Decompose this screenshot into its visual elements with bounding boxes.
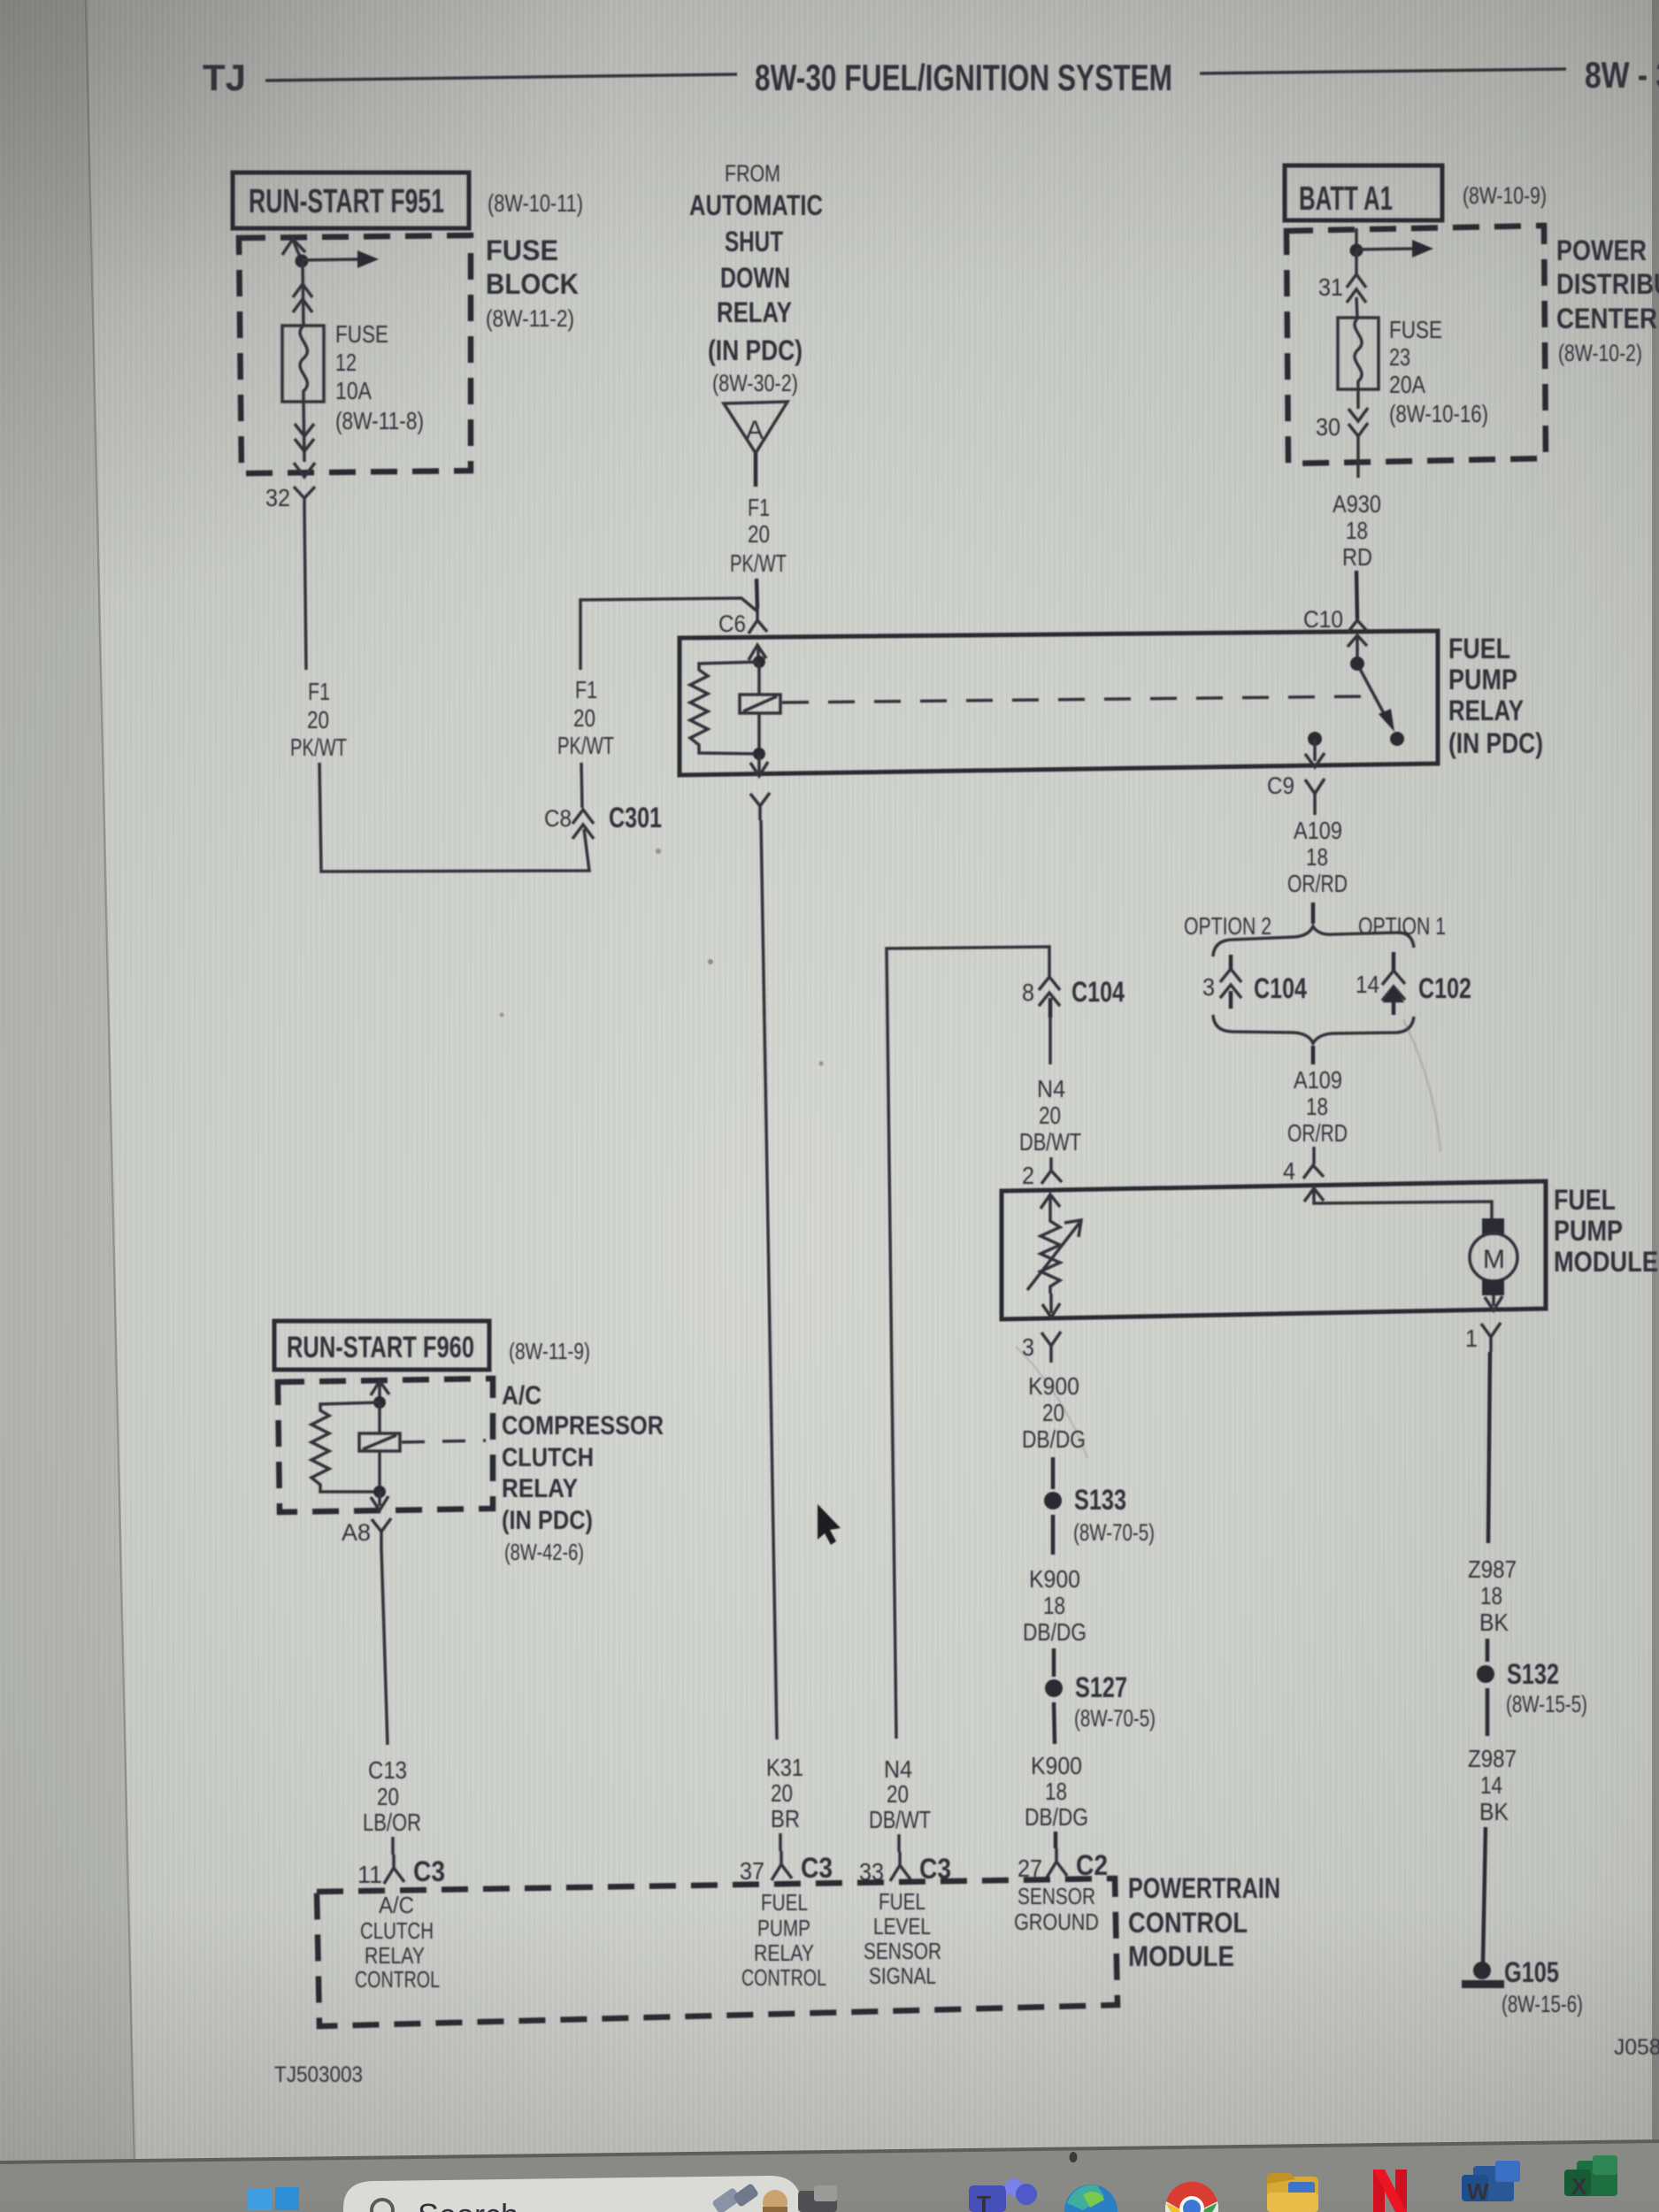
splice S127 [1045,1671,1156,1732]
mouse cursor [818,1504,841,1545]
relay switch arm [1360,669,1394,732]
svg-text:MODULE: MODULE [1554,1246,1658,1278]
label FUEL PUMP RELAY (IN PDC) [1448,633,1543,759]
node RUN-START F951 title box [233,173,469,228]
wire stub above option brace [1311,902,1316,924]
wire label N4 20 DB/WT (upper) [1019,1075,1081,1156]
windows logo [248,2187,299,2210]
label A/C COMPRESSOR CLUTCH RELAY (IN PDC) (8W-42-6) [502,1381,664,1565]
wire down to C6 [757,579,757,609]
svg-text:A109: A109 [1294,817,1342,844]
svg-text:14: 14 [1356,971,1379,998]
wire from relay C8 down to PCM [750,793,770,820]
connector A8 [342,1518,391,1547]
svg-text:OPTION 1: OPTION 1 [1358,912,1446,940]
svg-text:POWER: POWER [1556,234,1647,266]
value label FUSE 23 20A (8W-10-16) [1389,316,1488,427]
svg-text:18: 18 [1043,1592,1065,1619]
pin label A/C CLUTCH RELAY CONTROL [355,1892,440,1993]
svg-text:DB/WT: DB/WT [1019,1128,1081,1156]
svg-text:FUEL: FUEL [1448,633,1510,664]
label FROM AUTOMATIC SHUT DOWN RELAY (IN PDC) (8W-30-2) [689,160,823,396]
svg-text:RELAY: RELAY [365,1942,425,1969]
svg-text:W: W [1467,2178,1489,2205]
svg-text:CONTROL: CONTROL [1128,1907,1248,1939]
relay U1 box [680,631,1438,775]
svg-text:C104: C104 [1071,976,1125,1008]
feed stub from BATT A1 into PDC [1355,228,1358,250]
svg-text:COMPRESSOR: COMPRESSOR [502,1411,664,1440]
svg-text:4: 4 [1283,1157,1295,1185]
header rule right [1200,69,1566,73]
svg-text:A930: A930 [1333,490,1381,518]
svg-text:32: 32 [265,484,290,511]
svg-text:A109: A109 [1294,1066,1342,1094]
fuse F12 10A symbol [282,326,324,402]
connector C301 (C8) double chevron [544,802,662,839]
svg-text:C6: C6 [718,611,746,637]
connector C10 [1303,571,1367,633]
svg-text:DB/DG: DB/DG [1025,1803,1088,1831]
svg-text:K900: K900 [1029,1565,1080,1593]
svg-text:20: 20 [573,704,595,732]
svg-text:3: 3 [1022,1333,1034,1361]
svg-text:BK: BK [1479,1798,1509,1825]
connector pin 3 below module [1022,1332,1061,1363]
svg-text:RUN-START F960: RUN-START F960 [287,1331,474,1364]
svg-text:C8: C8 [544,805,572,832]
coil ground pin arrow down through box edge [750,754,768,776]
svg-text:K900: K900 [1031,1752,1082,1779]
connector Y at pin 32 [294,487,315,511]
svg-text:RELAY: RELAY [754,1939,814,1966]
svg-text:A: A [746,416,764,445]
splice S133 [1044,1484,1155,1546]
coil output arrow down through dashed edge [371,1492,388,1510]
svg-text:C13: C13 [368,1756,407,1784]
svg-text:(8W-70-5): (8W-70-5) [1073,1519,1155,1546]
svg-text:(8W-15-5): (8W-15-5) [1506,1691,1587,1717]
svg-text:POWERTRAIN: POWERTRAIN [1128,1872,1280,1904]
svg-text:N4: N4 [1037,1075,1065,1102]
Chrome icon [1165,2182,1218,2212]
junction dot in fuse block [296,255,309,268]
svg-text:DB/DG: DB/DG [1023,1618,1087,1646]
wire A8 down to C13 label [381,1547,388,1745]
A/C clutch relay dashed box [278,1379,493,1512]
Teams icon [969,2178,1037,2212]
svg-text:14: 14 [1480,1771,1502,1799]
svg-text:S127: S127 [1075,1671,1127,1703]
svg-text:C10: C10 [1303,606,1343,633]
svg-text:RD: RD [1342,543,1372,571]
common contact dot [1308,732,1322,746]
label POWERTRAIN CONTROL MODULE [1128,1872,1280,1972]
wire to PCM pin 11 [391,1837,395,1855]
svg-text:BLOCK: BLOCK [486,268,579,300]
connector pin 2 into fuel pump module [1022,1157,1062,1189]
wire from label up and right to relay coil feed [580,598,757,670]
dirt speck above taskbar [1070,2152,1078,2162]
sender feed arrow into module [1041,1194,1060,1216]
emoji icons in pill [711,2183,787,2212]
darker strip left of document page edge [0,0,134,2165]
fuel pump motor M1 [1470,1218,1517,1295]
contact output arrow down through box edge [1305,739,1325,767]
wire label Z987 18 BK [1468,1555,1517,1636]
svg-text:10A: 10A [335,377,372,404]
svg-text:(8W-11-2): (8W-11-2) [486,305,574,332]
svg-text:K900: K900 [1028,1372,1079,1400]
node BATT A1 title box [1285,165,1442,220]
splice S132 [1477,1658,1587,1717]
relay coil K1 [740,662,780,754]
svg-text:18: 18 [1306,1093,1328,1120]
value label FUSE 12 10A (8W-11-8) [335,320,424,434]
svg-text:FUEL: FUEL [761,1889,808,1916]
wire label A930 18 RD [1333,490,1381,571]
wire label Z987 14 BK [1468,1745,1517,1825]
svg-text:DB/DG: DB/DG [1022,1425,1086,1453]
svg-text:BK: BK [1479,1609,1509,1636]
connector C6 [718,607,767,637]
connector C9 [1267,772,1325,815]
wire to PCM pin 33 [897,1834,901,1852]
wire label K900 18 DB/DG [1023,1565,1087,1646]
svg-text:Search: Search [418,2197,518,2212]
svg-text:SHUT: SHUT [725,226,783,257]
relay coil suppression resistor [690,662,759,754]
pin 30 chevrons down [1348,389,1368,478]
pump ground arrow down through module edge [1485,1295,1502,1310]
wire to S133 [1051,1457,1056,1489]
junction dot top of F960 coil [373,1396,386,1409]
wire from junction to fuse [303,261,303,326]
svg-text:20: 20 [377,1783,399,1810]
svg-text:(8W-70-5): (8W-70-5) [1074,1705,1156,1732]
Netflix icon [1373,2170,1407,2212]
wire from module pin 1 down [1488,1352,1490,1543]
svg-text:G105: G105 [1504,1956,1559,1988]
connector pin 4 into fuel pump module [1283,1147,1324,1185]
svg-text:(IN PDC): (IN PDC) [1448,727,1543,759]
wire label C13 20 LB/OR [363,1756,421,1836]
svg-text:PK/WT: PK/WT [730,549,787,577]
svg-text:20: 20 [748,520,770,548]
svg-text:RELAY: RELAY [717,296,792,328]
svg-text:(8W-11-9): (8W-11-9) [509,1338,590,1364]
svg-text:8W - 30: 8W - 30 [1585,54,1659,96]
svg-text:37: 37 [740,1857,764,1885]
svg-text:C301: C301 [609,802,662,833]
wire label F1 20 PK/WT (ASD) [730,494,787,577]
svg-text:18: 18 [1346,517,1368,544]
Excel icon [1564,2155,1617,2200]
wire below S132 [1486,1688,1490,1736]
connector C102 pin 14 [1356,952,1471,1015]
connector C3 pin 37 at PCM [740,1851,833,1885]
svg-text:C3: C3 [801,1852,833,1884]
bus arrow to other circuits [302,250,379,268]
svg-text:30: 30 [1316,413,1340,441]
wire label K31 20 BR [766,1754,803,1832]
svg-text:DB/WT: DB/WT [869,1806,931,1833]
wire to S127 [1052,1648,1056,1677]
svg-text:(8W-30-2): (8W-30-2) [712,370,798,396]
svg-text:A8: A8 [342,1519,371,1546]
search pill [343,2176,802,2212]
svg-text:20A: 20A [1389,371,1425,398]
junction dot bottom of coil [753,748,765,760]
svg-text:AUTOMATIC: AUTOMATIC [689,189,823,221]
svg-text:TJ: TJ [203,57,246,98]
pin label FUEL PUMP RELAY CONTROL [741,1889,826,1991]
pump feed wire inside module [1304,1186,1492,1218]
svg-text:PUMP: PUMP [1554,1215,1623,1247]
relay control dashed link [782,696,1370,703]
suppression resistor F960 [311,1402,380,1492]
svg-text:(8W-42-6): (8W-42-6) [504,1539,584,1565]
wire below S127 [1054,1702,1055,1744]
svg-text:FUSE: FUSE [486,234,558,266]
svg-text:SIGNAL: SIGNAL [869,1962,936,1989]
svg-text:F1: F1 [748,494,770,521]
wire above C301 [581,763,582,808]
svg-text:N4: N4 [884,1755,912,1783]
svg-text:(8W-10-11): (8W-10-11) [488,189,583,217]
pin 31 chevrons [1347,250,1366,318]
svg-text:M: M [1483,1245,1505,1274]
PDC dashed box [1286,226,1546,464]
wire feed stub with up arrow at fuse block top [282,239,305,261]
wire to PCM pin 37 [779,1833,782,1851]
svg-text:OR/RD: OR/RD [1287,870,1348,897]
wire label F1 20 PK/WT (left) [290,678,347,761]
svg-text:TJ503003: TJ503003 [274,2062,363,2087]
switch pivot dot [1350,657,1364,671]
sensor return arrow down through module edge [1042,1294,1060,1317]
svg-text:FUSE: FUSE [1389,316,1442,343]
right screen bezel sliver [1652,0,1659,2212]
svg-text:BATT A1: BATT A1 [1299,180,1393,218]
bus arrow to other circuits [1356,240,1433,257]
relay coil F960 [359,1402,400,1492]
svg-text:CONTROL: CONTROL [741,1964,826,1991]
svg-text:T: T [977,2191,991,2212]
connector C104 pin 3 [1202,955,1307,1009]
fuse F23 20A symbol [1338,318,1379,389]
junction dot top of coil [753,656,765,668]
svg-text:23: 23 [1389,343,1410,371]
pin label SENSOR GROUND [1014,1883,1099,1935]
svg-text:F1: F1 [575,676,597,703]
svg-text:OPTION 2: OPTION 2 [1184,912,1271,940]
svg-text:A/C: A/C [502,1381,541,1410]
label FUSE BLOCK (8W-11-2) [486,234,579,332]
svg-text:CLUTCH: CLUTCH [360,1917,434,1944]
svg-text:F1: F1 [308,678,330,705]
svg-text:CLUTCH: CLUTCH [502,1443,594,1472]
svg-text:(8W-11-8): (8W-11-8) [335,407,424,434]
svg-text:MODULE: MODULE [1128,1940,1234,1972]
svg-text:S133: S133 [1074,1484,1126,1516]
svg-text:20: 20 [1039,1102,1061,1129]
svg-text:J058V: J058V [1614,2035,1659,2060]
wire continues to bottom corner [319,763,589,872]
svg-text:8W-30 FUEL/IGNITION SYSTEM: 8W-30 FUEL/IGNITION SYSTEM [755,57,1172,98]
fuel level sensor variable resistor [1027,1216,1081,1294]
wire F951 pin32 down [304,511,306,670]
svg-text:PUMP: PUMP [757,1915,810,1941]
wire label F1 20 PK/WT (middle) [557,676,614,759]
svg-text:18: 18 [1306,843,1328,871]
svg-text:18: 18 [1480,1582,1502,1609]
lower option brace [1213,1015,1414,1043]
coil-side pin arrow up (C6 into box) [749,645,766,662]
header rule left [265,74,737,81]
Edge icon [1064,2185,1118,2212]
svg-text:GROUND: GROUND [1014,1909,1099,1935]
svg-text:1: 1 [1465,1325,1478,1352]
connector C3 pin 33 at PCM [859,1852,951,1886]
dirt specks on screen [708,959,713,964]
svg-text:11: 11 [357,1861,382,1888]
svg-text:31: 31 [1318,273,1343,301]
svg-text:Z987: Z987 [1468,1745,1517,1772]
svg-text:C104: C104 [1254,972,1307,1004]
wire to PCM pin 27 [1054,1832,1058,1848]
svg-text:PK/WT: PK/WT [290,733,347,761]
svg-text:20: 20 [307,706,329,733]
wire label N4 20 DB/WT (lower) [869,1755,931,1833]
wire to S132 [1486,1639,1490,1662]
svg-text:C9: C9 [1267,772,1294,799]
connector C2 pin 27 at PCM [1018,1848,1108,1882]
label FUEL PUMP MODULE [1554,1184,1658,1278]
svg-text:S132: S132 [1507,1658,1559,1690]
svg-text:C102: C102 [1418,972,1471,1004]
wire label K900 20 DB/DG [1022,1372,1086,1453]
svg-text:20: 20 [887,1780,909,1808]
svg-text:PUMP: PUMP [1448,664,1517,695]
Word icon [1462,2161,1520,2205]
svg-text:(8W-10-2): (8W-10-2) [1558,340,1642,366]
label POWER DISTRIBUTION CENTER (8W-10-2) [1556,234,1659,366]
junction dot bottom of F960 coil [373,1486,386,1498]
svg-text:CONTROL: CONTROL [355,1966,440,1993]
wire below C104-8 [1048,1018,1052,1064]
svg-text:BR: BR [771,1805,800,1832]
switch feed arrow into box [1348,635,1367,660]
svg-text:(IN PDC): (IN PDC) [708,334,803,366]
svg-text:FUEL: FUEL [879,1888,926,1915]
svg-text:CENTER: CENTER [1556,303,1657,334]
svg-text:PK/WT: PK/WT [557,732,614,759]
svg-text:2: 2 [1022,1162,1034,1189]
junction dot PDC bus [1350,244,1363,257]
svg-text:20: 20 [1042,1399,1064,1426]
svg-text:LB/OR: LB/OR [363,1809,421,1836]
svg-text:OR/RD: OR/RD [1287,1119,1348,1147]
connector C104 pin 8 [1022,976,1125,1018]
svg-text:RELAY: RELAY [1448,695,1524,726]
wire stub below option brace [1311,1046,1316,1064]
svg-text:C3: C3 [413,1855,445,1887]
svg-text:K31: K31 [766,1754,803,1781]
off-page triangle A [724,402,787,453]
svg-text:12: 12 [335,349,357,376]
wire to G105 [1483,1827,1486,1962]
svg-text:A/C: A/C [379,1892,414,1918]
node RUN-START F960 title box [274,1321,489,1370]
svg-text:20: 20 [771,1779,793,1807]
svg-text:DOWN: DOWN [720,262,790,294]
PCM dashed box [317,1878,1118,2026]
F960 control dashed stub [402,1440,486,1442]
relay feed arrow up at dashed edge [371,1381,389,1402]
svg-text:SENSOR: SENSOR [864,1938,941,1964]
wire label A109 18 OR/RD (upper) [1287,817,1348,897]
svg-text:Z987: Z987 [1468,1555,1517,1583]
connector C3 pin 11 at PCM [357,1855,445,1888]
svg-text:RELAY: RELAY [502,1474,578,1503]
connector pin 1 below module [1465,1323,1501,1352]
upper option brace [1213,926,1414,956]
wire label K900 18 DB/DG (lower) [1025,1752,1088,1831]
svg-text:(8W-15-6): (8W-15-6) [1502,1991,1583,2017]
svg-text:LEVEL: LEVEL [873,1913,931,1939]
svg-text:FUEL: FUEL [1554,1184,1616,1216]
wire from triangle down [754,453,758,487]
svg-text:DISTRIBU: DISTRIBU [1556,268,1659,300]
svg-text:SENSOR: SENSOR [1018,1883,1095,1909]
ground G105 [1462,1956,1583,2017]
faint screen scratch arc [1403,1019,1440,1152]
pin chevrons into fuse well [293,284,312,312]
folder icon [1267,2173,1318,2212]
normally-open contact dot [1390,732,1404,746]
wire below fuse with double chevron down [294,402,315,477]
wire label A109 18 OR/RD (lower) [1287,1066,1348,1147]
partially visible dark icon [798,2191,837,2212]
svg-text:FUSE: FUSE [335,320,388,348]
svg-text:(8W-10-9): (8W-10-9) [1463,182,1547,209]
svg-text:8: 8 [1022,979,1034,1006]
module box [1002,1181,1546,1319]
svg-text:(8W-10-16): (8W-10-16) [1389,400,1488,427]
svg-text:(IN PDC): (IN PDC) [502,1506,593,1535]
fuse block dashed box [239,235,471,473]
svg-text:3: 3 [1202,973,1215,1001]
svg-text:18: 18 [1045,1778,1067,1805]
pin label FUEL LEVEL SENSOR SIGNAL [864,1888,941,1989]
wire below S133 [1051,1515,1056,1555]
svg-text:FROM: FROM [725,160,780,187]
wire from C104-8 up and left to long drop [887,947,1049,1739]
svg-text:X: X [1571,2173,1587,2200]
svg-text:RUN-START F951: RUN-START F951 [249,183,444,220]
